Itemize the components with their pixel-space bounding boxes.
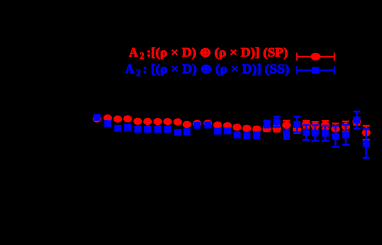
- svg-text:A: A: [129, 45, 138, 59]
- svg-text::[(ρ × D) ⊕ (ρ × D)] (SP): :[(ρ × D) ⊕ (ρ × D)] (SP): [147, 45, 289, 59]
- svg-text:: [(ρ × D) ⊕ (ρ × D)] (SS): : [(ρ × D) ⊕ (ρ × D)] (SS): [143, 62, 290, 76]
- svg-text:2: 2: [136, 68, 141, 78]
- svg-text:2: 2: [140, 51, 145, 61]
- svg-text:A: A: [125, 62, 134, 76]
